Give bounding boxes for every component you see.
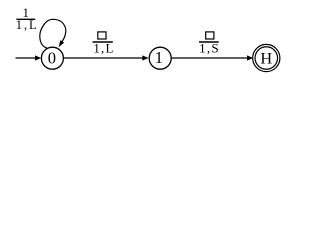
svg-text:1,S: 1,S (199, 40, 219, 55)
svg-text:1: 1 (155, 48, 163, 67)
svg-text:1,L: 1,L (16, 18, 37, 32)
svg-text:1,L: 1,L (93, 40, 113, 55)
svg-text:0: 0 (48, 48, 56, 67)
svg-text:H: H (260, 49, 272, 68)
